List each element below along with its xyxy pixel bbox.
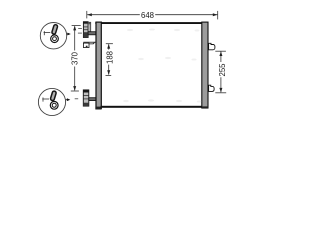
svg-text:188: 188 (106, 51, 115, 64)
svg-text:648: 648 (141, 11, 154, 20)
svg-text:255: 255 (218, 63, 227, 77)
svg-text:370: 370 (71, 51, 80, 65)
